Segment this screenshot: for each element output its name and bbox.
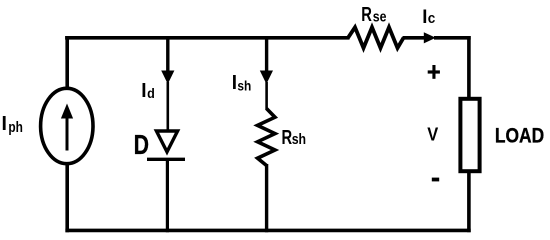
wire right rail lower <box>467 171 471 233</box>
wire top right segment <box>434 36 471 40</box>
arrow Id head <box>161 71 174 85</box>
label Rsh <box>282 125 307 148</box>
diode D cathode bar <box>147 158 185 161</box>
svg-text:I: I <box>422 6 427 28</box>
arrow Ic head <box>424 32 436 43</box>
label Rse <box>361 3 387 26</box>
svg-text:LOAD: LOAD <box>495 124 544 148</box>
svg-text:I: I <box>2 112 7 135</box>
svg-text:d: d <box>147 86 155 102</box>
label Ic <box>422 6 435 28</box>
wire diode branch upper (Id arrow shaft) <box>166 36 169 72</box>
svg-text:ph: ph <box>8 119 23 135</box>
svg-text:sh: sh <box>292 131 306 147</box>
resistor Rse zigzag <box>348 27 404 48</box>
label LOAD <box>495 124 544 148</box>
label D <box>134 130 149 160</box>
svg-text:R: R <box>282 125 293 148</box>
load resistor rectangle <box>460 99 479 171</box>
arrow Ish head <box>260 71 273 85</box>
label plus terminal <box>428 65 440 79</box>
svg-text:sh: sh <box>237 77 251 93</box>
wire Rse to Ic arrow <box>403 36 425 40</box>
label Id <box>141 80 155 103</box>
wire top rail <box>65 36 349 40</box>
wire Rsh branch middle <box>265 82 268 110</box>
svg-text:I: I <box>232 72 237 95</box>
current source Iph <box>41 88 93 163</box>
label Iph <box>2 112 23 135</box>
svg-text:D: D <box>134 130 149 160</box>
svg-text:V: V <box>427 124 438 145</box>
svg-text:c: c <box>428 10 436 26</box>
current source arrow shaft <box>66 115 69 151</box>
wire Rsh branch upper (Ish arrow shaft) <box>265 36 268 72</box>
resistor Rsh zigzag <box>258 109 276 166</box>
label minus terminal <box>432 178 439 182</box>
wire Rsh branch lower <box>265 164 268 232</box>
wire bottom rail <box>65 229 470 233</box>
label Ish <box>232 72 252 95</box>
label V <box>427 124 438 145</box>
wire diode branch lower <box>166 158 169 232</box>
svg-text:se: se <box>373 8 387 24</box>
current source arrow head <box>61 104 73 119</box>
wire left branch upper <box>65 36 69 90</box>
diode D triangle <box>156 131 177 152</box>
wire right rail upper <box>467 36 471 99</box>
wire left branch lower <box>65 163 69 232</box>
wire diode branch middle <box>167 82 170 131</box>
svg-text:R: R <box>361 3 372 26</box>
svg-text:I: I <box>141 80 146 103</box>
